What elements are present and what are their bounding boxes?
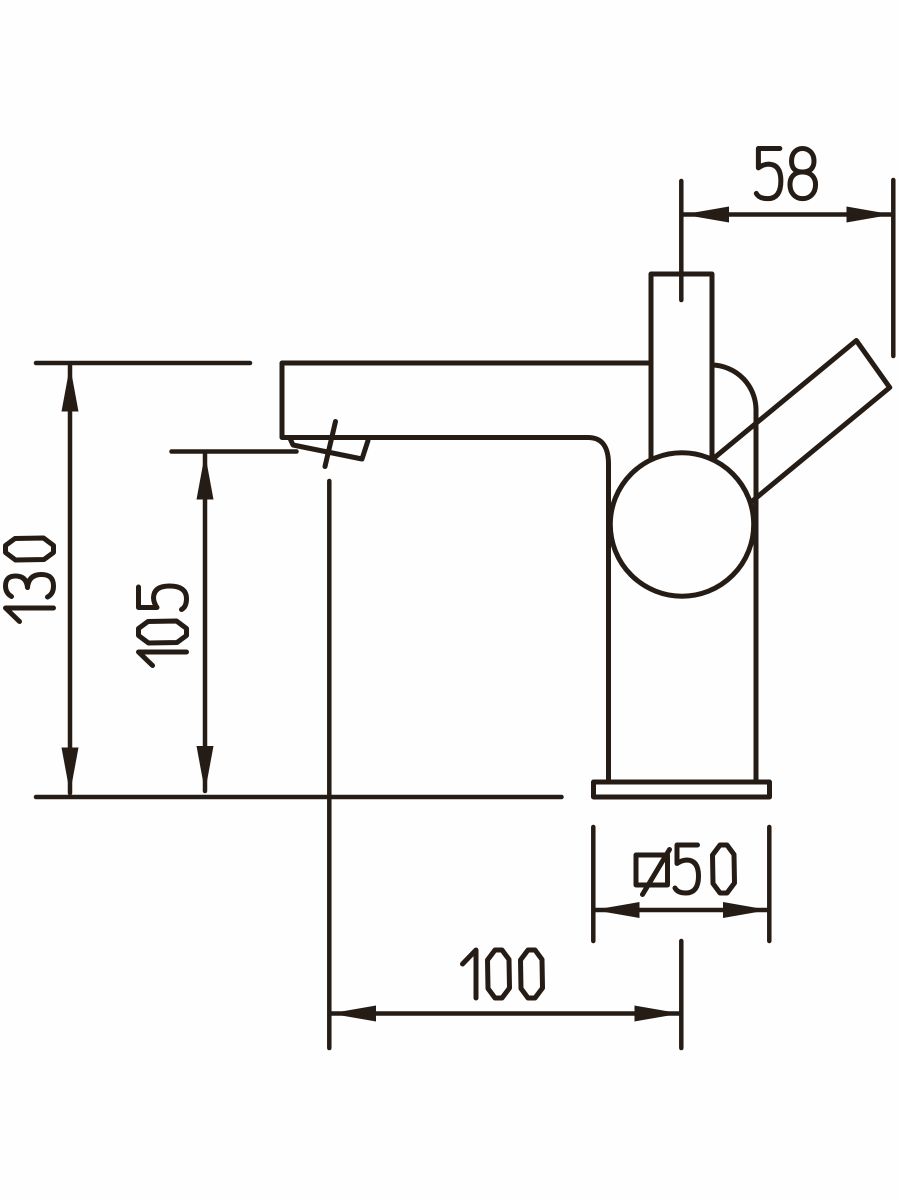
label 105 rotated [139, 586, 187, 666]
label 100 [463, 950, 543, 998]
dim line 100 [331, 1011, 680, 1016]
extension line 105 top [172, 449, 297, 454]
extension line 58 left [679, 181, 684, 300]
extension lines dia50 [593, 827, 769, 941]
arrowheads 105 [197, 454, 214, 500]
housing arc and body right edge [712, 365, 756, 782]
handle lever [714, 341, 890, 506]
baseline countertop [36, 795, 562, 800]
dim line 105 [203, 454, 208, 791]
extension line 58 right [891, 180, 896, 356]
arrowheads 100 [330, 1006, 376, 1022]
extension line 100 right center [679, 941, 684, 1048]
dim line dia50 [594, 908, 769, 913]
arrowheads 130 [62, 366, 79, 412]
label dia50: digits [675, 845, 735, 893]
label dia50: diameter square [636, 855, 668, 885]
label 58 [756, 149, 815, 199]
faucet spout outline [282, 363, 651, 782]
label 130 rotated [6, 538, 54, 622]
aerator slash [325, 422, 336, 467]
extension line 100 left [327, 481, 332, 1048]
arrowheads 58 [683, 207, 729, 223]
pivot circle [610, 453, 753, 596]
aerator tip [291, 440, 369, 460]
dim line 130 [68, 366, 73, 793]
base plate [594, 782, 770, 797]
arrowheads dia50 [594, 902, 640, 918]
extension line top left [36, 361, 250, 366]
handle stem [651, 274, 712, 459]
label dia50: slash [643, 850, 670, 895]
dim line 58 [683, 212, 893, 217]
